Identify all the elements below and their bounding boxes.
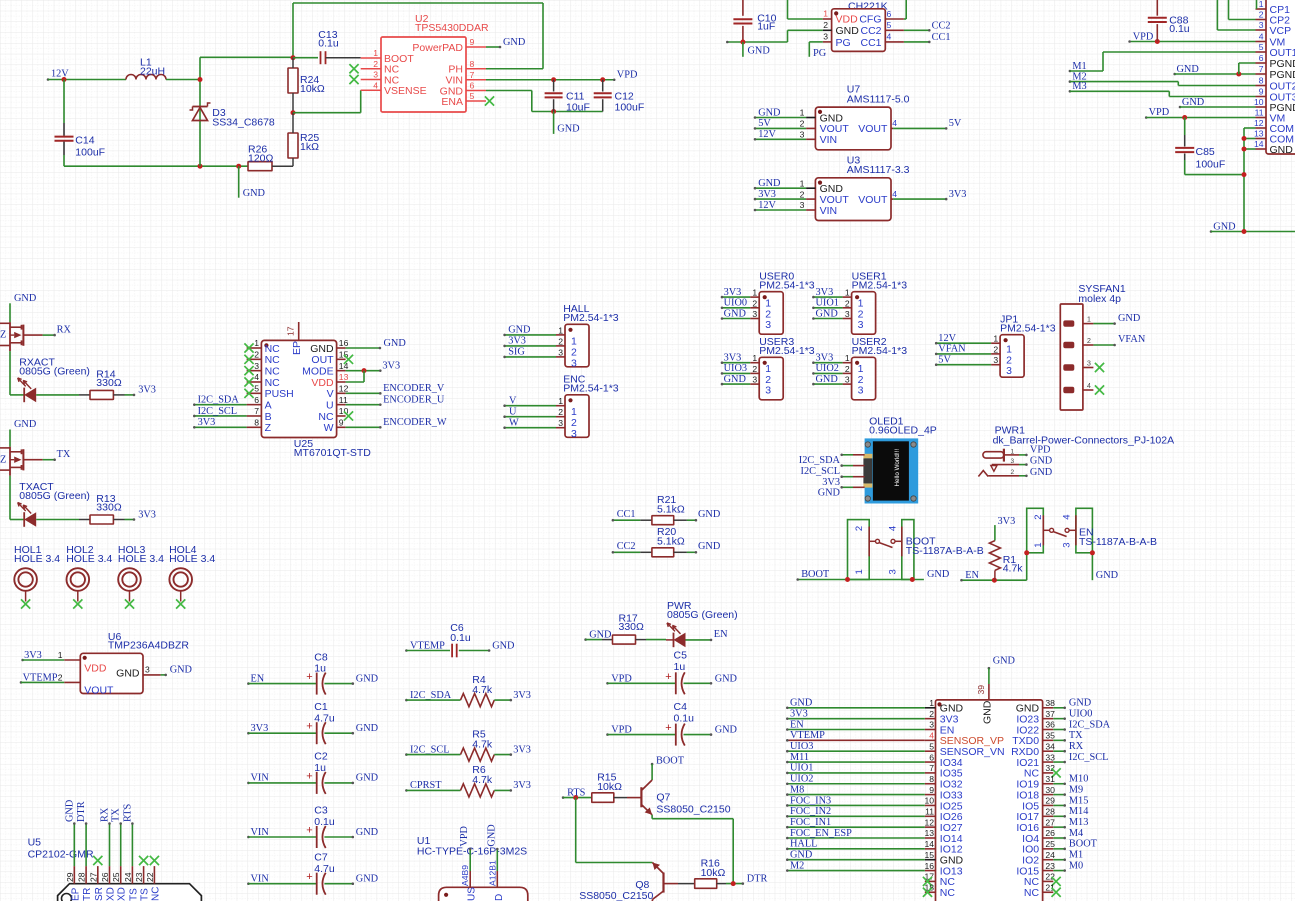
svg-text:BOOT: BOOT [801, 569, 830, 580]
svg-text:3V3: 3V3 [382, 360, 400, 371]
svg-text:3: 3 [929, 720, 934, 730]
svg-text:2: 2 [845, 298, 850, 308]
svg-text:GND: GND [64, 799, 75, 822]
svg-text:A: A [265, 399, 272, 411]
svg-text:M8: M8 [790, 784, 804, 795]
svg-text:100uF: 100uF [75, 147, 105, 159]
svg-text:dk_Barrel-Power-Connectors_PJ-: dk_Barrel-Power-Connectors_PJ-102A [993, 435, 1175, 447]
svg-text:4: 4 [1259, 32, 1264, 42]
svg-text:3V3: 3V3 [822, 477, 840, 488]
svg-text:M1: M1 [1069, 850, 1083, 861]
svg-text:HOLE 3.4: HOLE 3.4 [169, 553, 215, 565]
svg-text:PG: PG [813, 48, 827, 59]
svg-text:4.7k: 4.7k [1003, 563, 1024, 575]
svg-text:10kΩ: 10kΩ [701, 867, 726, 879]
svg-text:HOLE 3.4: HOLE 3.4 [118, 553, 164, 565]
svg-text:GND: GND [724, 308, 747, 319]
svg-text:US: US [467, 887, 478, 901]
svg-text:11: 11 [925, 807, 934, 817]
svg-text:330Ω: 330Ω [96, 502, 122, 514]
svg-text:4: 4 [373, 80, 378, 90]
svg-text:12: 12 [1254, 118, 1264, 128]
svg-text:D: D [494, 894, 505, 901]
svg-text:2: 2 [58, 672, 63, 682]
svg-text:HOLE 3.4: HOLE 3.4 [66, 553, 112, 565]
svg-text:17: 17 [286, 326, 296, 336]
svg-text:GND: GND [715, 673, 738, 684]
svg-text:W: W [509, 418, 519, 429]
svg-text:3V3: 3V3 [513, 744, 531, 755]
svg-text:GND: GND [993, 656, 1016, 667]
svg-text:12V: 12V [938, 333, 956, 344]
svg-text:3: 3 [845, 375, 850, 385]
svg-text:9: 9 [929, 785, 934, 795]
svg-text:VFAN: VFAN [1118, 334, 1146, 345]
svg-text:GND: GND [1030, 455, 1053, 466]
svg-text:RX: RX [100, 807, 111, 822]
svg-text:I2C_SDA: I2C_SDA [198, 394, 240, 405]
svg-text:VPD: VPD [617, 70, 638, 81]
svg-text:VSENSE: VSENSE [384, 85, 427, 97]
svg-text:3: 3 [765, 385, 771, 397]
svg-text:SS8050_C2150: SS8050_C2150 [579, 890, 653, 901]
svg-text:CC1: CC1 [932, 32, 951, 43]
svg-text:3: 3 [1006, 365, 1012, 377]
svg-text:PM2.54-1*3: PM2.54-1*3 [563, 383, 619, 395]
svg-text:16: 16 [924, 861, 934, 871]
svg-text:U5: U5 [28, 837, 42, 849]
svg-text:B: B [265, 411, 272, 423]
svg-text:EP: EP [70, 887, 81, 901]
svg-text:23: 23 [1045, 861, 1055, 871]
svg-text:2: 2 [1087, 338, 1091, 345]
svg-text:GND: GND [492, 641, 515, 652]
svg-text:25: 25 [1045, 839, 1055, 849]
svg-text:33: 33 [1045, 752, 1055, 762]
svg-text:GND: GND [356, 723, 379, 734]
svg-text:3: 3 [800, 130, 805, 140]
svg-text:3: 3 [845, 309, 850, 319]
svg-text:100uF: 100uF [1196, 158, 1226, 170]
svg-text:GND: GND [486, 824, 497, 847]
svg-text:CC1: CC1 [860, 37, 881, 49]
svg-text:5.1kΩ: 5.1kΩ [657, 504, 685, 516]
svg-text:M10: M10 [1069, 774, 1088, 785]
svg-text:3V3: 3V3 [24, 650, 42, 661]
svg-text:12V: 12V [51, 69, 69, 80]
svg-text:1: 1 [823, 9, 828, 19]
svg-text:VOUT: VOUT [84, 685, 114, 697]
svg-text:2: 2 [993, 344, 998, 354]
svg-text:5: 5 [470, 91, 475, 101]
svg-text:CC2: CC2 [932, 20, 951, 31]
svg-text:GND: GND [243, 188, 266, 199]
svg-text:1: 1 [845, 288, 850, 298]
svg-text:+: + [665, 722, 671, 734]
svg-text:3V3: 3V3 [998, 516, 1016, 527]
svg-text:GND: GND [1118, 313, 1141, 324]
svg-text:GND: GND [1096, 570, 1119, 581]
svg-text:SS8050_C2150: SS8050_C2150 [656, 804, 730, 816]
svg-text:FOC_IN1: FOC_IN1 [790, 817, 831, 828]
svg-text:6: 6 [1259, 53, 1264, 63]
svg-text:2: 2 [558, 407, 563, 417]
svg-text:HC-TYPE-C-16P-3M2S: HC-TYPE-C-16P-3M2S [417, 845, 527, 857]
svg-text:0.1u: 0.1u [674, 713, 695, 725]
svg-text:2: 2 [800, 119, 805, 129]
svg-text:TX: TX [1069, 730, 1083, 741]
svg-text:I2C_SCL: I2C_SCL [410, 744, 449, 755]
svg-text:TS: TS [140, 888, 151, 901]
svg-text:1u: 1u [674, 661, 686, 673]
svg-text:GND: GND [790, 698, 813, 709]
svg-text:CC2: CC2 [860, 25, 881, 37]
svg-text:+: + [306, 871, 312, 883]
svg-text:HALL: HALL [790, 839, 817, 850]
svg-text:VIN: VIN [251, 773, 270, 784]
svg-text:RX: RX [57, 325, 72, 336]
svg-text:TPS5430DDAR: TPS5430DDAR [415, 22, 489, 34]
svg-text:5V: 5V [938, 355, 951, 366]
svg-text:GND: GND [927, 569, 950, 580]
svg-text:2: 2 [854, 526, 865, 531]
svg-text:C85: C85 [1196, 146, 1215, 158]
svg-text:RX: RX [1069, 741, 1084, 752]
svg-text:NC: NC [318, 411, 334, 423]
svg-text:Q7: Q7 [656, 792, 670, 804]
svg-text:3: 3 [752, 309, 757, 319]
svg-text:A12B1: A12B1 [487, 860, 497, 886]
svg-text:PM2.54-1*3: PM2.54-1*3 [759, 345, 815, 357]
svg-text:3V3: 3V3 [758, 189, 776, 200]
svg-text:I2C_SDA: I2C_SDA [410, 690, 452, 701]
svg-text:330Ω: 330Ω [96, 377, 122, 389]
svg-text:1: 1 [254, 338, 259, 348]
svg-text:M15: M15 [1069, 795, 1088, 806]
svg-text:NC: NC [265, 354, 281, 366]
svg-text:UIO0: UIO0 [724, 298, 747, 309]
svg-text:GND: GND [589, 629, 612, 640]
svg-text:4: 4 [892, 118, 897, 128]
svg-text:1: 1 [800, 178, 805, 188]
svg-text:GND: GND [170, 665, 193, 676]
svg-text:3: 3 [373, 70, 378, 80]
svg-text:23: 23 [134, 872, 144, 882]
svg-text:3: 3 [752, 375, 757, 385]
svg-text:1: 1 [1087, 317, 1091, 324]
svg-text:3V3: 3V3 [198, 417, 216, 428]
svg-text:VDD: VDD [84, 663, 107, 675]
svg-text:UIO3: UIO3 [790, 741, 813, 752]
svg-text:10kΩ: 10kΩ [597, 781, 622, 793]
svg-text:W: W [324, 422, 334, 434]
svg-text:VFAN: VFAN [938, 344, 966, 355]
svg-text:30: 30 [1045, 785, 1055, 795]
svg-text:29: 29 [65, 872, 75, 882]
svg-text:5: 5 [929, 741, 934, 751]
svg-text:38: 38 [1045, 698, 1055, 708]
svg-text:C14: C14 [75, 134, 94, 146]
svg-text:6: 6 [470, 81, 475, 91]
svg-text:1: 1 [373, 48, 378, 58]
svg-text:4: 4 [888, 526, 899, 531]
svg-text:GND: GND [310, 343, 334, 355]
svg-text:GND: GND [503, 37, 526, 48]
svg-text:7: 7 [470, 70, 475, 80]
svg-text:9: 9 [470, 37, 475, 47]
svg-text:+: + [306, 671, 312, 683]
svg-text:GND: GND [1030, 467, 1053, 478]
svg-text:C2: C2 [314, 751, 328, 763]
svg-text:7: 7 [1259, 64, 1264, 74]
svg-text:EN: EN [251, 673, 265, 684]
svg-text:330Ω: 330Ω [619, 621, 645, 633]
svg-text:I2C_SDA: I2C_SDA [1069, 719, 1111, 730]
svg-text:GND: GND [14, 419, 37, 430]
svg-text:I2C_SDA: I2C_SDA [799, 455, 841, 466]
svg-text:ENCODER_W: ENCODER_W [383, 417, 447, 428]
svg-text:3V3: 3V3 [724, 287, 742, 298]
svg-text:XD: XD [106, 887, 117, 901]
svg-text:5.1kΩ: 5.1kΩ [657, 536, 685, 548]
svg-text:15: 15 [924, 850, 934, 860]
svg-text:5: 5 [887, 20, 892, 30]
svg-text:GND: GND [1270, 144, 1294, 156]
svg-text:U: U [326, 399, 334, 411]
svg-text:39: 39 [976, 685, 986, 695]
svg-text:+: + [665, 671, 671, 683]
svg-text:VOUT: VOUT [858, 194, 888, 206]
svg-text:GND: GND [356, 773, 379, 784]
svg-text:M13: M13 [1069, 817, 1088, 828]
svg-text:3V3: 3V3 [816, 353, 834, 364]
svg-text:22: 22 [145, 872, 155, 882]
svg-text:26: 26 [1045, 828, 1055, 838]
svg-text:8: 8 [1259, 76, 1264, 86]
svg-text:4: 4 [1062, 515, 1073, 520]
svg-text:7: 7 [929, 763, 934, 773]
svg-text:GND: GND [818, 488, 841, 499]
svg-text:11: 11 [1255, 108, 1264, 118]
svg-text:TMP236A4DBZR: TMP236A4DBZR [108, 639, 190, 651]
svg-text:8: 8 [254, 418, 259, 428]
svg-text:GND: GND [816, 308, 839, 319]
svg-text:GND: GND [748, 45, 771, 56]
svg-text:3: 3 [1259, 20, 1264, 30]
svg-text:24: 24 [123, 872, 133, 882]
svg-text:3: 3 [254, 361, 259, 371]
svg-text:2: 2 [929, 709, 934, 719]
svg-text:CP2102-GMR: CP2102-GMR [28, 849, 94, 861]
svg-text:VCP: VCP [1270, 25, 1292, 37]
svg-text:EN: EN [790, 719, 804, 730]
svg-text:0805G (Green): 0805G (Green) [19, 490, 90, 502]
svg-text:VDD: VDD [311, 377, 334, 389]
svg-text:NC: NC [265, 343, 281, 355]
svg-text:CPRST: CPRST [410, 780, 442, 791]
svg-text:31: 31 [1045, 774, 1055, 784]
svg-text:3: 3 [823, 32, 828, 42]
svg-text:GND: GND [816, 374, 839, 385]
svg-text:2: 2 [254, 350, 259, 360]
svg-text:GND: GND [14, 293, 37, 304]
svg-text:GND: GND [356, 673, 379, 684]
svg-text:0.1u: 0.1u [318, 38, 339, 50]
svg-text:GND: GND [724, 374, 747, 385]
svg-text:GND: GND [356, 874, 379, 885]
svg-text:Z: Z [265, 422, 272, 434]
svg-text:1: 1 [1011, 448, 1015, 455]
svg-text:14: 14 [1254, 139, 1264, 149]
svg-text:14: 14 [339, 361, 349, 371]
svg-text:12V: 12V [758, 200, 776, 211]
svg-text:1: 1 [558, 396, 563, 406]
svg-text:GND: GND [715, 725, 738, 736]
svg-text:1: 1 [558, 325, 563, 335]
svg-text:U: U [509, 407, 517, 418]
svg-text:A4B9: A4B9 [460, 865, 470, 886]
svg-text:3V3: 3V3 [251, 723, 269, 734]
svg-text:1: 1 [1259, 0, 1264, 9]
svg-text:10: 10 [1254, 97, 1264, 107]
svg-text:PM2.54-1*3: PM2.54-1*3 [1000, 323, 1056, 335]
svg-text:36: 36 [1045, 720, 1055, 730]
svg-text:GND: GND [981, 700, 993, 724]
svg-text:UIO0: UIO0 [1069, 708, 1092, 719]
svg-text:TS-1187A-B-A-B: TS-1187A-B-A-B [1079, 536, 1157, 548]
svg-text:OUT: OUT [311, 354, 334, 366]
svg-text:9: 9 [1259, 87, 1264, 97]
svg-text:5: 5 [254, 384, 259, 394]
svg-text:1: 1 [993, 334, 998, 344]
svg-text:0805G (Green): 0805G (Green) [19, 365, 90, 377]
svg-text:M9: M9 [1069, 784, 1083, 795]
svg-text:5V: 5V [949, 118, 962, 129]
svg-text:PowerPAD: PowerPAD [412, 42, 463, 54]
svg-text:5V: 5V [758, 118, 771, 129]
svg-text:EN: EN [714, 629, 728, 640]
svg-text:SIG: SIG [508, 347, 525, 358]
svg-text:6: 6 [929, 752, 934, 762]
svg-text:3: 3 [993, 355, 998, 365]
svg-text:I2C_SCL: I2C_SCL [198, 406, 237, 417]
svg-text:GND: GND [1182, 97, 1205, 108]
svg-text:TX: TX [57, 449, 71, 460]
svg-text:GND: GND [116, 668, 140, 680]
svg-text:FOC_IN3: FOC_IN3 [790, 795, 831, 806]
svg-text:10uF: 10uF [566, 102, 590, 114]
svg-text:8: 8 [470, 59, 475, 69]
svg-text:1: 1 [800, 108, 805, 118]
svg-text:+: + [306, 825, 312, 837]
svg-text:M0: M0 [1069, 860, 1083, 871]
svg-text:10kΩ: 10kΩ [300, 83, 325, 95]
svg-text:2: 2 [1011, 469, 1015, 476]
svg-text:TR: TR [82, 888, 93, 901]
svg-text:NC: NC [265, 377, 281, 389]
svg-text:+: + [306, 721, 312, 733]
svg-text:2: 2 [373, 59, 378, 69]
svg-text:EP: EP [291, 341, 303, 355]
svg-text:27: 27 [88, 872, 98, 882]
svg-text:TS: TS [128, 888, 139, 901]
svg-text:CFG: CFG [859, 14, 881, 26]
svg-text:FOC_EN_ESP: FOC_EN_ESP [790, 828, 852, 839]
svg-text:0805G (Green): 0805G (Green) [667, 609, 738, 621]
svg-text:UIO1: UIO1 [816, 298, 839, 309]
svg-text:GND: GND [758, 178, 781, 189]
svg-text:1: 1 [845, 353, 850, 363]
svg-text:UIO1: UIO1 [790, 763, 813, 774]
svg-text:2: 2 [800, 189, 805, 199]
svg-text:1: 1 [58, 650, 63, 660]
svg-text:Z: Z [0, 454, 6, 465]
svg-text:1: 1 [1033, 543, 1044, 548]
svg-text:3V3: 3V3 [513, 780, 531, 791]
svg-text:22uH: 22uH [140, 66, 165, 78]
svg-text:C11: C11 [566, 90, 585, 102]
svg-text:DTR: DTR [747, 873, 768, 884]
svg-text:C1: C1 [314, 701, 328, 713]
svg-text:14: 14 [924, 839, 934, 849]
svg-text:3: 3 [888, 569, 899, 574]
svg-text:VDD: VDD [836, 14, 859, 26]
svg-text:PUSH: PUSH [265, 388, 294, 400]
svg-text:UIO3: UIO3 [724, 363, 747, 374]
svg-text:VIN: VIN [251, 827, 270, 838]
svg-text:GND: GND [1177, 64, 1200, 75]
svg-text:1: 1 [752, 353, 757, 363]
svg-text:3V3: 3V3 [790, 708, 808, 719]
svg-text:6: 6 [254, 395, 259, 405]
svg-text:ENCODER_U: ENCODER_U [383, 394, 445, 405]
svg-text:Hello World!!!: Hello World!!! [894, 449, 901, 487]
svg-text:3: 3 [558, 418, 563, 428]
svg-text:AMS1117-3.3: AMS1117-3.3 [847, 164, 910, 176]
svg-text:TX: TX [111, 808, 122, 822]
svg-text:VTEMP: VTEMP [790, 730, 825, 741]
svg-text:M11: M11 [790, 752, 809, 763]
svg-text:DTR: DTR [76, 801, 87, 822]
svg-text:9: 9 [339, 418, 344, 428]
svg-text:NC: NC [265, 365, 281, 377]
svg-text:M2: M2 [790, 860, 804, 871]
svg-text:0.1u: 0.1u [450, 632, 471, 644]
svg-text:RTS: RTS [122, 803, 133, 822]
svg-text:NC: NC [940, 887, 956, 899]
svg-text:2: 2 [1033, 515, 1044, 520]
svg-text:M4: M4 [1069, 828, 1083, 839]
svg-text:34: 34 [1045, 741, 1055, 751]
svg-text:120Ω: 120Ω [248, 152, 274, 164]
svg-text:27: 27 [1045, 817, 1055, 827]
svg-text:MT6701QT-STD: MT6701QT-STD [294, 447, 371, 459]
svg-text:37: 37 [1045, 709, 1055, 719]
svg-text:GND: GND [698, 541, 721, 552]
svg-text:13: 13 [339, 372, 349, 382]
svg-text:+: + [306, 770, 312, 782]
svg-text:0.96OLED_4P: 0.96OLED_4P [869, 425, 937, 437]
svg-text:3V3: 3V3 [138, 385, 156, 396]
svg-text:GND: GND [557, 124, 580, 135]
svg-text:3: 3 [1087, 361, 1091, 368]
svg-text:GND: GND [1213, 221, 1236, 232]
svg-text:NC: NC [150, 887, 161, 901]
svg-text:1: 1 [929, 698, 934, 708]
svg-text:25: 25 [111, 872, 121, 882]
svg-text:GND: GND [758, 107, 781, 118]
svg-text:VPD: VPD [459, 825, 470, 846]
